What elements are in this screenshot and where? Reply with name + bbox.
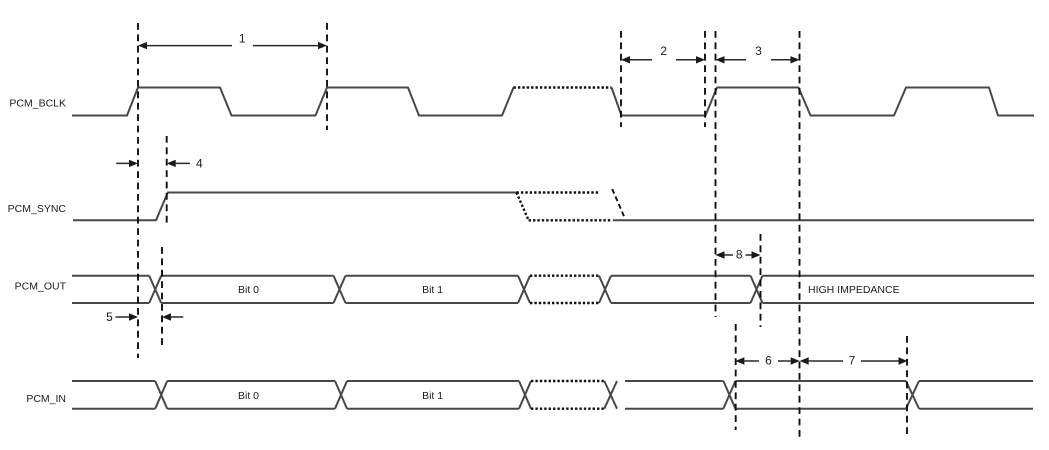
dimension 4 arrow — [116, 156, 203, 170]
svg-text:Bit 1: Bit 1 — [422, 284, 443, 296]
wire PCM_OUT top rail segments — [72, 275, 1034, 277]
node PCM_OUT crossing 5 — [751, 276, 763, 303]
dimension 8 arrow — [716, 247, 761, 261]
wire PCM_IN dotted cell rails — [531, 381, 604, 409]
svg-text:7: 7 — [849, 353, 856, 367]
svg-text:Bit 1: Bit 1 — [422, 390, 443, 402]
svg-text:6: 6 — [765, 353, 772, 367]
svg-text:Bit 0: Bit 0 — [238, 284, 259, 296]
wire PCM_BCLK clock waveform solid left — [72, 88, 514, 116]
svg-text:HIGH IMPEDANCE: HIGH IMPEDANCE — [808, 284, 900, 296]
svg-text:PCM_IN: PCM_IN — [26, 393, 66, 405]
wire PCM_OUT bottom rail segments — [72, 302, 1034, 304]
dashed guide line v2 x=162 — [161, 247, 163, 345]
dimension 6 arrow — [735, 353, 799, 367]
dashed guide line v8 x=735.7 — [735, 324, 737, 430]
dashed guide line v10 x=799.5 — [799, 31, 801, 437]
node PCM_IN crossing 3 — [519, 381, 531, 409]
dimension 3 arrow — [716, 44, 800, 63]
wire PCM_SYNC dotted break falling edge — [517, 193, 529, 221]
svg-text:3: 3 — [755, 44, 762, 58]
node PCM_OUT crossing 3 — [518, 276, 530, 303]
dimension 2 arrow — [621, 44, 705, 63]
dashed guide line v3 x=166.7 — [166, 136, 168, 227]
dashed guide line v11 x=907 — [906, 336, 908, 437]
svg-text:5: 5 — [106, 310, 113, 324]
wire PCM_OUT dotted cell rails — [530, 276, 599, 303]
node PCM_IN crossing 5 — [723, 381, 735, 409]
dimension 5 arrow — [106, 310, 183, 324]
dashed guide line v5 x=621 — [620, 31, 622, 127]
node PCM_IN crossing 1 — [155, 381, 167, 409]
wire PCM_SYNC dashed falling edge right — [612, 189, 624, 217]
node PCM_IN crossing 4 open — [604, 381, 617, 409]
svg-text:PCM_OUT: PCM_OUT — [15, 281, 67, 293]
wire PCM_SYNC solid left low and rise — [73, 193, 517, 221]
wire PCM_BCLK dotted high segment — [514, 86, 612, 88]
svg-text:4: 4 — [196, 156, 203, 170]
svg-text:1: 1 — [239, 32, 246, 46]
node PCM_OUT crossing 2 — [334, 276, 346, 303]
svg-text:PCM_BCLK: PCM_BCLK — [9, 98, 66, 110]
svg-text:Bit 0: Bit 0 — [238, 390, 259, 402]
node PCM_IN crossing 6 — [906, 381, 919, 409]
svg-text:PCM_SYNC: PCM_SYNC — [8, 203, 67, 215]
wire PCM_SYNC solid low right — [613, 219, 1034, 221]
dashed guide line v7 x=715.5 — [715, 31, 717, 317]
svg-text:8: 8 — [736, 247, 743, 261]
node PCM_OUT crossing 4 — [599, 276, 611, 303]
dashed guide line v4 x=327 — [326, 23, 328, 130]
wire PCM_IN top rail segments — [72, 380, 1033, 382]
node PCM_IN crossing 2 — [335, 381, 347, 409]
wire PCM_BCLK clock waveform solid right — [612, 88, 1035, 116]
wire PCM_SYNC dotted break top — [517, 191, 601, 193]
node PCM_OUT crossing 1 — [149, 276, 161, 303]
dashed guide line v6 x=705 — [704, 31, 706, 127]
wire PCM_SYNC dotted break bottom — [529, 219, 612, 221]
dimension 1 arrow — [138, 32, 327, 50]
svg-text:2: 2 — [660, 44, 667, 58]
wire PCM_IN bottom rail segments — [72, 408, 1033, 410]
dashed guide line v9 x=760.5 — [760, 234, 762, 327]
dimension 7 arrow — [800, 353, 908, 367]
dashed guide line v1 x=138 — [137, 23, 139, 358]
